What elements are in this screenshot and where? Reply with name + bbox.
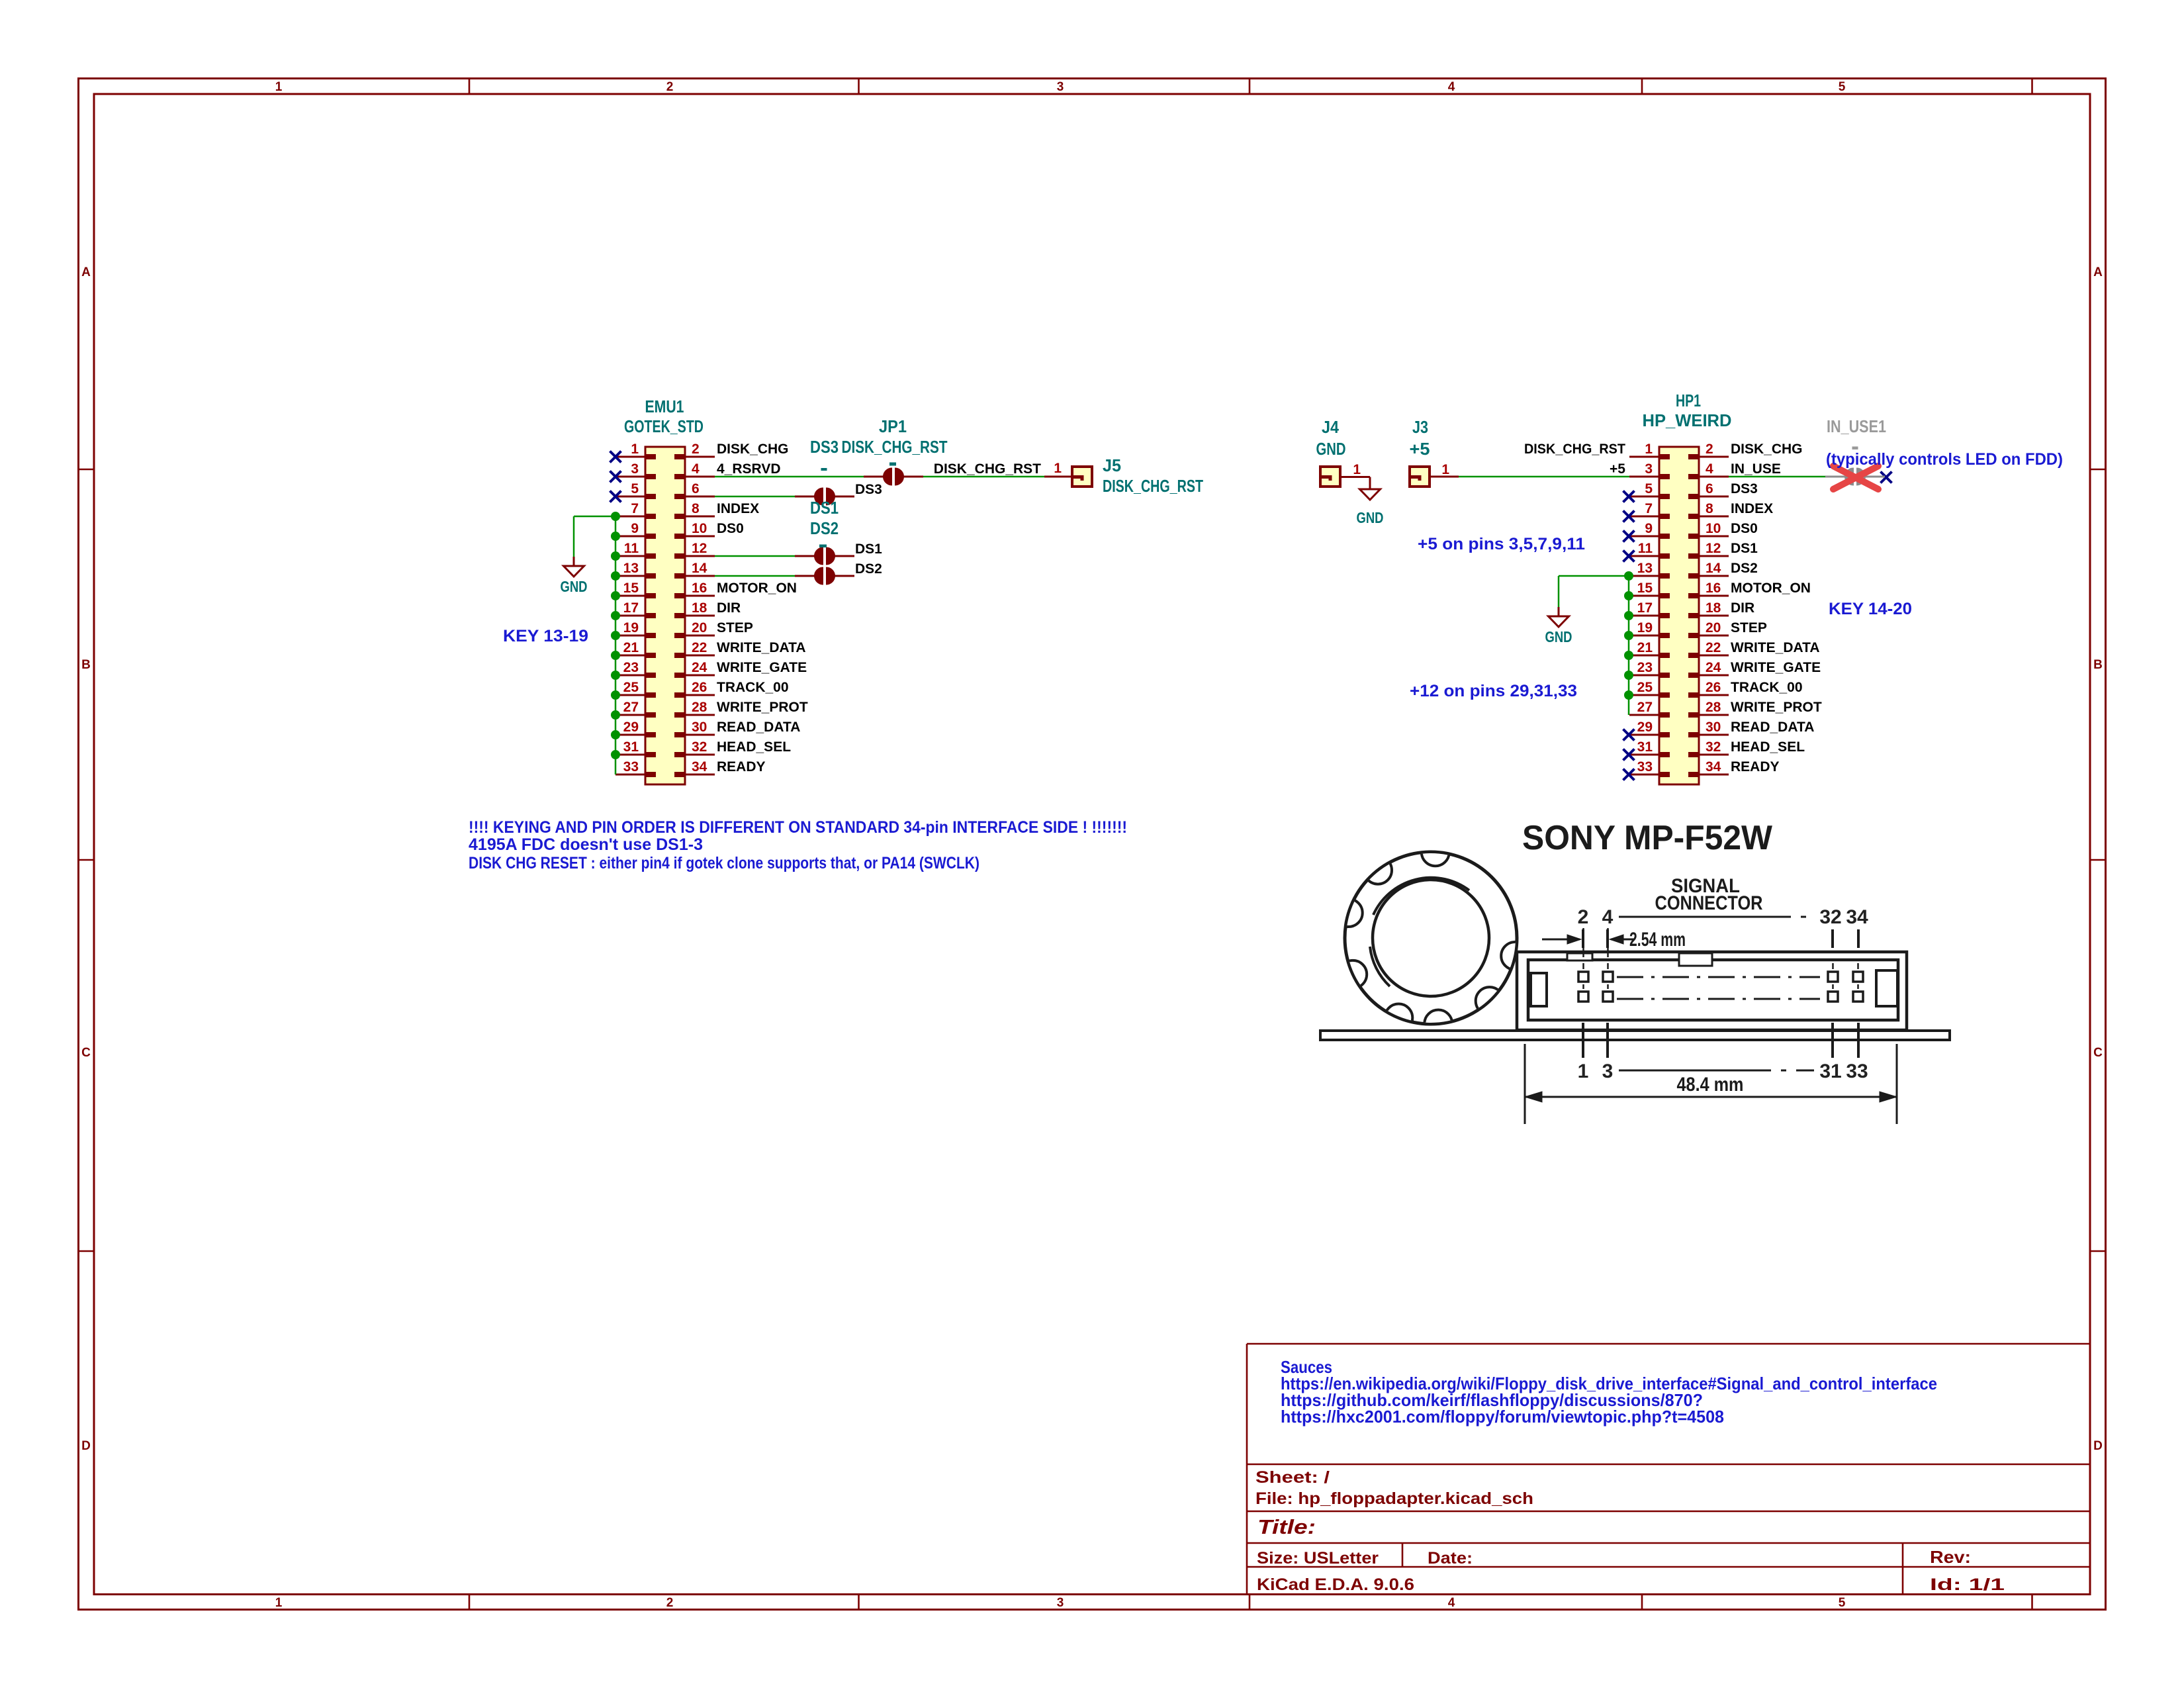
- svg-text:33: 33: [1846, 1060, 1868, 1082]
- svg-text:3: 3: [1057, 80, 1064, 94]
- svg-text:TRACK_00: TRACK_00: [1731, 680, 1803, 695]
- svg-text:26: 26: [1706, 680, 1721, 695]
- svg-text:23: 23: [623, 660, 639, 675]
- svg-text:30: 30: [692, 720, 707, 735]
- svg-text:21: 21: [623, 640, 639, 655]
- svg-text:8: 8: [1706, 501, 1713, 516]
- svg-text:+5: +5: [1410, 439, 1430, 459]
- svg-text:27: 27: [1637, 700, 1653, 715]
- svg-text:INDEX: INDEX: [717, 501, 759, 516]
- svg-text:1: 1: [1645, 442, 1653, 457]
- svg-text:DS2: DS2: [810, 518, 839, 538]
- svg-text:DISK_CHG_RST: DISK_CHG_RST: [1524, 442, 1625, 457]
- svg-text:J4: J4: [1322, 417, 1339, 437]
- svg-text:KiCad E.D.A. 9.0.6: KiCad E.D.A. 9.0.6: [1257, 1575, 1414, 1594]
- svg-text:6: 6: [1706, 481, 1713, 496]
- svg-text:D: D: [2093, 1439, 2103, 1453]
- svg-text:15: 15: [623, 581, 639, 596]
- svg-text:D: D: [81, 1439, 91, 1453]
- svg-text:CONNECTOR: CONNECTOR: [1655, 892, 1763, 914]
- svg-text:Id: 1/1: Id: 1/1: [1930, 1575, 2005, 1594]
- svg-text:DS3: DS3: [810, 437, 839, 457]
- svg-text:READ_DATA: READ_DATA: [1731, 720, 1814, 735]
- svg-text:17: 17: [623, 600, 639, 616]
- svg-text:READY: READY: [1731, 759, 1780, 774]
- svg-text:5: 5: [1839, 1596, 1846, 1610]
- svg-text:File: hp_floppadapter.kicad_sc: File: hp_floppadapter.kicad_sch: [1255, 1489, 1533, 1508]
- svg-text:13: 13: [623, 561, 639, 576]
- svg-text:GOTEK_STD: GOTEK_STD: [624, 416, 704, 436]
- svg-text:23: 23: [1637, 660, 1653, 675]
- svg-text:HEAD_SEL: HEAD_SEL: [717, 739, 791, 755]
- svg-text:11: 11: [624, 541, 639, 556]
- svg-text:29: 29: [623, 720, 639, 735]
- svg-text:4: 4: [1602, 906, 1614, 928]
- svg-text:5: 5: [1839, 80, 1846, 94]
- svg-text:DS1: DS1: [855, 541, 882, 557]
- svg-text:15: 15: [1637, 581, 1653, 596]
- svg-text:31: 31: [623, 739, 639, 755]
- svg-text:1: 1: [1578, 1060, 1589, 1082]
- svg-text:14: 14: [1706, 561, 1721, 576]
- svg-text:DS0: DS0: [717, 521, 744, 536]
- svg-text:J3: J3: [1412, 417, 1428, 437]
- svg-text:KEY 13-19: KEY 13-19: [503, 627, 588, 645]
- svg-text:18: 18: [692, 600, 707, 616]
- svg-text:DISK_CHG_RST: DISK_CHG_RST: [934, 461, 1041, 477]
- svg-text:A: A: [81, 265, 91, 279]
- svg-text:WRITE_GATE: WRITE_GATE: [717, 660, 807, 675]
- svg-text:+5 on pins 3,5,7,9,11: +5 on pins 3,5,7,9,11: [1418, 535, 1585, 553]
- svg-text:WRITE_DATA: WRITE_DATA: [717, 640, 806, 655]
- svg-text:GND: GND: [1316, 439, 1346, 459]
- svg-text:11: 11: [1638, 541, 1653, 556]
- svg-text:31: 31: [1819, 1060, 1841, 1082]
- svg-text:32: 32: [1706, 739, 1721, 755]
- svg-text:34: 34: [692, 759, 707, 774]
- svg-text:9: 9: [631, 521, 639, 536]
- svg-text:C: C: [2093, 1046, 2103, 1060]
- svg-text:5: 5: [1645, 481, 1653, 496]
- svg-text:16: 16: [1706, 581, 1721, 596]
- svg-text:4: 4: [692, 461, 700, 477]
- svg-text:28: 28: [692, 700, 707, 715]
- svg-text:GND: GND: [1545, 628, 1572, 645]
- svg-text:3: 3: [1645, 461, 1653, 477]
- svg-text:WRITE_DATA: WRITE_DATA: [1731, 640, 1820, 655]
- svg-text:13: 13: [1637, 561, 1653, 576]
- svg-text:7: 7: [1645, 501, 1653, 516]
- svg-text:GND: GND: [561, 578, 588, 595]
- svg-text:24: 24: [1706, 660, 1721, 675]
- svg-text:B: B: [2093, 658, 2103, 672]
- svg-text:A: A: [2093, 265, 2103, 279]
- svg-text:WRITE_PROT: WRITE_PROT: [1731, 700, 1822, 715]
- svg-text:27: 27: [623, 700, 639, 715]
- svg-text:2: 2: [692, 442, 700, 457]
- svg-text:JP1: JP1: [879, 416, 907, 436]
- svg-text:Title:: Title:: [1257, 1515, 1316, 1538]
- svg-text:30: 30: [1706, 720, 1721, 735]
- svg-text:10: 10: [692, 521, 707, 536]
- svg-text:2.54 mm: 2.54 mm: [1629, 929, 1686, 951]
- svg-text:HP_WEIRD: HP_WEIRD: [1643, 410, 1732, 430]
- svg-text:READY: READY: [717, 759, 766, 774]
- svg-text:25: 25: [623, 680, 639, 695]
- svg-text:DS0: DS0: [1731, 521, 1758, 536]
- svg-text:16: 16: [692, 581, 707, 596]
- svg-text:6: 6: [692, 481, 700, 496]
- svg-text:4: 4: [1706, 461, 1713, 477]
- svg-text:14: 14: [692, 561, 707, 576]
- svg-text:DISK_CHG_RST: DISK_CHG_RST: [1103, 476, 1203, 496]
- svg-text:GND: GND: [1357, 509, 1384, 526]
- svg-text:J5: J5: [1103, 455, 1121, 475]
- svg-text:HEAD_SEL: HEAD_SEL: [1731, 739, 1805, 755]
- svg-text:Sheet: /: Sheet: /: [1255, 1468, 1330, 1487]
- svg-text:WRITE_GATE: WRITE_GATE: [1731, 660, 1821, 675]
- svg-text:MOTOR_ON: MOTOR_ON: [1731, 581, 1811, 596]
- svg-text:DIR: DIR: [1731, 600, 1754, 616]
- svg-text:WRITE_PROT: WRITE_PROT: [717, 700, 808, 715]
- svg-text:33: 33: [623, 759, 639, 774]
- svg-text:32: 32: [692, 739, 707, 755]
- svg-text:1: 1: [275, 80, 283, 94]
- svg-text:8: 8: [692, 501, 700, 516]
- svg-text:2: 2: [1578, 906, 1589, 928]
- svg-text:1: 1: [1353, 462, 1361, 477]
- svg-text:EMU1: EMU1: [645, 397, 684, 416]
- svg-text:2: 2: [666, 1596, 674, 1610]
- svg-text:1: 1: [275, 1596, 283, 1610]
- svg-text:48.4 mm: 48.4 mm: [1677, 1074, 1744, 1096]
- svg-text:Date:: Date:: [1428, 1549, 1473, 1568]
- svg-text:1: 1: [1441, 462, 1449, 477]
- svg-text:STEP: STEP: [1731, 620, 1767, 635]
- svg-text:31: 31: [1637, 739, 1653, 755]
- svg-text:DIR: DIR: [717, 600, 741, 616]
- svg-text:4: 4: [1448, 80, 1455, 94]
- svg-text:22: 22: [692, 640, 707, 655]
- svg-text:19: 19: [623, 620, 639, 635]
- svg-text:3: 3: [1602, 1060, 1614, 1082]
- svg-text:32: 32: [1819, 906, 1841, 928]
- svg-text:DISK CHG RESET : either pin4 i: DISK CHG RESET : either pin4 if gotek cl…: [469, 854, 979, 872]
- svg-text:!!!! KEYING AND PIN ORDER IS D: !!!! KEYING AND PIN ORDER IS DIFFERENT O…: [469, 818, 1127, 837]
- svg-text:B: B: [81, 658, 91, 672]
- svg-text:24: 24: [692, 660, 707, 675]
- svg-text:Size: USLetter: Size: USLetter: [1257, 1549, 1379, 1568]
- svg-text:20: 20: [692, 620, 707, 635]
- svg-text:25: 25: [1637, 680, 1653, 695]
- svg-text:SONY MP-F52W: SONY MP-F52W: [1522, 819, 1773, 857]
- svg-text:+5: +5: [1610, 461, 1625, 477]
- svg-text:INDEX: INDEX: [1731, 501, 1773, 516]
- svg-text:21: 21: [1637, 640, 1653, 655]
- svg-text:C: C: [81, 1046, 91, 1060]
- svg-text:4195A FDC doesn't use DS1-3: 4195A FDC doesn't use DS1-3: [469, 835, 703, 854]
- svg-text:4: 4: [1448, 1596, 1455, 1610]
- svg-text:+12 on pins 29,31,33: +12 on pins 29,31,33: [1410, 682, 1577, 700]
- svg-text:4_RSRVD: 4_RSRVD: [717, 461, 781, 477]
- svg-text:TRACK_00: TRACK_00: [717, 680, 789, 695]
- svg-text:Rev:: Rev:: [1930, 1547, 1971, 1567]
- svg-text:10: 10: [1706, 521, 1721, 536]
- svg-text:DS1: DS1: [1731, 541, 1758, 556]
- svg-text:READ_DATA: READ_DATA: [717, 720, 800, 735]
- svg-text:22: 22: [1706, 640, 1721, 655]
- svg-text:3: 3: [631, 461, 639, 477]
- svg-text:1: 1: [1054, 461, 1062, 476]
- svg-text:DS2: DS2: [855, 561, 882, 577]
- svg-text:DISK_CHG: DISK_CHG: [717, 442, 789, 457]
- svg-text:28: 28: [1706, 700, 1721, 715]
- svg-text:17: 17: [1637, 600, 1653, 616]
- svg-text:3: 3: [1057, 1596, 1064, 1610]
- svg-text:DISK_CHG_RST: DISK_CHG_RST: [842, 437, 948, 457]
- svg-text:2: 2: [1706, 442, 1713, 457]
- svg-text:DS3: DS3: [1731, 481, 1758, 496]
- svg-text:STEP: STEP: [717, 620, 753, 635]
- svg-text:29: 29: [1637, 720, 1653, 735]
- svg-text:DS3: DS3: [855, 482, 882, 497]
- svg-text:(typically controls LED on FDD: (typically controls LED on FDD): [1826, 450, 2063, 469]
- svg-text:19: 19: [1637, 620, 1653, 635]
- svg-text:DS2: DS2: [1731, 561, 1758, 576]
- svg-text:1: 1: [631, 442, 639, 457]
- svg-text:5: 5: [631, 481, 639, 496]
- svg-text:DISK_CHG: DISK_CHG: [1731, 442, 1803, 457]
- svg-text:20: 20: [1706, 620, 1721, 635]
- svg-text:DS1: DS1: [810, 498, 839, 518]
- svg-text:MOTOR_ON: MOTOR_ON: [717, 581, 797, 596]
- svg-text:IN_USE1: IN_USE1: [1827, 416, 1886, 436]
- svg-text:9: 9: [1645, 521, 1653, 536]
- svg-text:7: 7: [631, 501, 639, 516]
- svg-text:12: 12: [692, 541, 707, 556]
- svg-text:34: 34: [1846, 906, 1868, 928]
- svg-text:KEY 14-20: KEY 14-20: [1829, 600, 1912, 618]
- svg-text:12: 12: [1706, 541, 1721, 556]
- svg-text:2: 2: [666, 80, 674, 94]
- svg-text:IN_USE: IN_USE: [1731, 461, 1781, 477]
- svg-text:HP1: HP1: [1676, 391, 1701, 410]
- svg-text:26: 26: [692, 680, 707, 695]
- svg-text:18: 18: [1706, 600, 1721, 616]
- svg-text:33: 33: [1637, 759, 1653, 774]
- svg-text:34: 34: [1706, 759, 1721, 774]
- svg-text:https://hxc2001.com/floppy/for: https://hxc2001.com/floppy/forum/viewtop…: [1281, 1407, 1724, 1427]
